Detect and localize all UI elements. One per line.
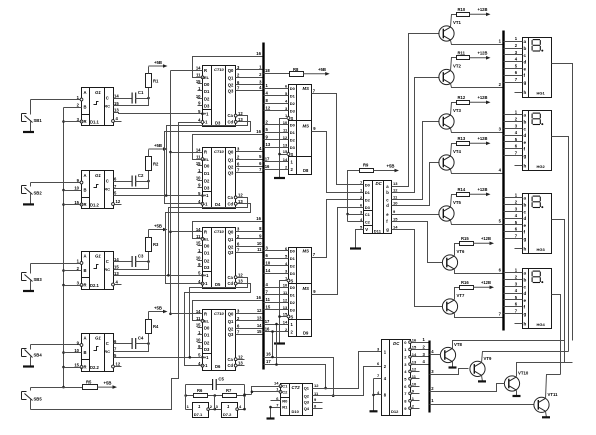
ground xyxy=(23,203,34,205)
svg-text:D1.2: D1.2 xyxy=(90,203,100,208)
wire R input D1.1 xyxy=(64,121,82,123)
supply +12V xyxy=(473,280,494,289)
svg-text:R3: R3 xyxy=(153,242,159,247)
svg-text:+1: +1 xyxy=(204,193,209,198)
svg-text:A: A xyxy=(84,173,87,178)
svg-text:11: 11 xyxy=(266,297,271,302)
wire R input D2.2 xyxy=(64,367,82,369)
svg-text:EL: EL xyxy=(204,75,210,80)
wire D2.1 pin13 to D5 +1 xyxy=(114,275,203,277)
wire VT10 emitter to ground xyxy=(516,391,518,397)
svg-text:D9: D9 xyxy=(303,331,309,336)
svg-text:C2: C2 xyxy=(282,389,288,394)
svg-text:D1: D1 xyxy=(204,171,210,176)
svg-text:D1: D1 xyxy=(290,94,296,99)
svg-text:D0: D0 xyxy=(290,123,296,128)
wire VT8 base xyxy=(430,349,441,355)
resistor R14 xyxy=(451,187,470,207)
svg-text:D12: D12 xyxy=(391,409,399,414)
svg-text:D2.1: D2.1 xyxy=(90,283,100,288)
svg-text:Q2: Q2 xyxy=(228,244,234,249)
wire common cathode HG2 xyxy=(552,137,569,352)
svg-text:Q3: Q3 xyxy=(228,332,234,337)
svg-text:R13: R13 xyxy=(458,136,466,141)
svg-text:VT5: VT5 xyxy=(453,200,461,205)
svg-text:D0: D0 xyxy=(204,244,210,249)
svg-text:+5В: +5В xyxy=(104,381,112,386)
svg-text:RC: RC xyxy=(104,103,110,108)
svg-text:-1: -1 xyxy=(204,363,208,368)
wire carry/borrow stubs D6 xyxy=(238,360,245,366)
wire EL to bus D5 xyxy=(193,216,264,239)
wire common line SB B/R inputs xyxy=(62,108,65,389)
svg-text:10: 10 xyxy=(283,282,288,287)
svg-text:17: 17 xyxy=(265,319,270,324)
svg-text:d: d xyxy=(524,60,527,65)
resistor R12 xyxy=(451,95,470,115)
wire R input D5 xyxy=(171,231,203,233)
svg-text:D3: D3 xyxy=(204,104,210,109)
wire B input D1.2 xyxy=(64,190,82,192)
svg-text:12: 12 xyxy=(412,367,417,372)
wire D11 V to ground xyxy=(356,230,364,249)
supply +12V xyxy=(470,136,491,145)
resistor R8 xyxy=(264,67,304,77)
transistor VT5 xyxy=(439,200,462,221)
wire segment pins HG2 xyxy=(504,110,523,166)
transistor VT3 xyxy=(439,108,462,129)
svg-text:R: R xyxy=(204,311,207,316)
svg-text:Q4: Q4 xyxy=(304,406,310,411)
svg-text:Ca: Ca xyxy=(228,275,234,280)
svg-text:h: h xyxy=(524,90,527,95)
svg-text:D2: D2 xyxy=(290,101,296,106)
svg-text:h: h xyxy=(524,247,527,252)
svg-text:RC: RC xyxy=(104,349,110,354)
svg-text:a: a xyxy=(524,196,527,201)
supply +12V xyxy=(473,236,494,245)
wire Q output stub D1.1 xyxy=(115,121,122,123)
svg-text:15: 15 xyxy=(196,241,201,246)
resistor R16 xyxy=(455,280,474,300)
resistor R6 xyxy=(184,388,222,398)
svg-text:D2: D2 xyxy=(204,97,210,102)
svg-text:+12В: +12В xyxy=(478,136,488,141)
wire EL to bus D6 xyxy=(193,295,264,321)
svg-text:Q3: Q3 xyxy=(228,250,234,255)
svg-text:12: 12 xyxy=(238,272,243,277)
svg-text:+12В: +12В xyxy=(481,236,491,241)
wire D10 R inputs to ground xyxy=(269,401,280,419)
svg-text:-1: -1 xyxy=(204,201,208,206)
wire data input stubs D4 xyxy=(198,166,203,188)
supply +12V xyxy=(470,187,491,196)
wire data input stubs D6 xyxy=(198,328,203,349)
svg-text:HG3: HG3 xyxy=(537,247,546,252)
svg-text:14: 14 xyxy=(393,225,398,230)
svg-text:D2: D2 xyxy=(204,258,210,263)
wire VT11 emitter to ground xyxy=(546,412,547,418)
svg-text:D0: D0 xyxy=(204,82,210,87)
svg-text:13: 13 xyxy=(238,279,243,284)
svg-text:+1: +1 xyxy=(204,273,209,278)
wire segment pins HG3 xyxy=(504,193,523,249)
svg-text:a: a xyxy=(524,39,527,44)
wire borrow D3 to D4 xyxy=(165,122,251,204)
svg-text:17: 17 xyxy=(265,157,270,162)
wire Q output stub D2.1 xyxy=(115,284,122,286)
svg-text:D1: D1 xyxy=(290,130,296,135)
svg-text:CT10: CT10 xyxy=(214,67,225,72)
wire D8 output to D11 D1 xyxy=(312,132,364,193)
svg-text:S: S xyxy=(291,152,294,157)
svg-text:VT2: VT2 xyxy=(453,64,461,69)
svg-text:b: b xyxy=(524,120,527,125)
wire RC D2.1 xyxy=(114,262,149,270)
svg-text:R: R xyxy=(204,229,207,234)
svg-text:R6: R6 xyxy=(197,388,203,393)
svg-text:R1: R1 xyxy=(282,405,288,410)
counter D3 xyxy=(196,65,244,127)
svg-text:Q1: Q1 xyxy=(228,76,234,81)
svg-text:Q1: Q1 xyxy=(304,385,310,390)
svg-text:14: 14 xyxy=(196,66,201,71)
svg-text:+5В: +5В xyxy=(387,164,395,169)
svg-text:VT8: VT8 xyxy=(454,342,462,347)
display HG3 xyxy=(523,194,552,254)
svg-text:13: 13 xyxy=(393,181,398,186)
svg-text:R14: R14 xyxy=(458,187,466,192)
svg-text:D0: D0 xyxy=(290,249,296,254)
svg-text:15: 15 xyxy=(393,217,398,222)
svg-text:D1: D1 xyxy=(290,256,296,261)
wire D12 outputs to digit bus xyxy=(412,337,430,408)
svg-text:R15: R15 xyxy=(461,236,469,241)
svg-text:Q2: Q2 xyxy=(228,165,234,170)
svg-text:12: 12 xyxy=(393,188,398,193)
svg-text:D1: D1 xyxy=(365,190,371,195)
wire VT9 emitter to ground xyxy=(482,376,483,382)
svg-text:12: 12 xyxy=(257,308,262,313)
wire VT5 emitter to bus xyxy=(451,219,504,225)
svg-text:16: 16 xyxy=(266,352,271,357)
wire B input D2.2 xyxy=(64,352,82,354)
svg-text:R: R xyxy=(84,202,87,207)
resistor R4 xyxy=(146,320,160,344)
wire D10 Q3 Q4 stubs xyxy=(313,403,323,409)
capacitor C4 xyxy=(114,336,150,350)
wire R input D4 xyxy=(171,152,203,154)
wire segment f to VT6 xyxy=(392,222,443,263)
pushbutton SB1 xyxy=(22,100,82,133)
supply +5V xyxy=(374,164,400,173)
svg-text:e: e xyxy=(524,298,527,303)
svg-text:a: a xyxy=(524,271,527,276)
resistor R15 xyxy=(455,236,474,256)
wire R input D1.2 xyxy=(64,204,82,206)
svg-text:D2: D2 xyxy=(204,340,210,345)
svg-text:D2: D2 xyxy=(365,198,371,203)
svg-text:Q1: Q1 xyxy=(228,319,234,324)
svg-text:e: e xyxy=(524,66,527,71)
wire D11 C1 input xyxy=(348,214,364,216)
svg-text:D1: D1 xyxy=(204,89,210,94)
svg-text:15: 15 xyxy=(196,323,201,328)
wire VT8 emitter to ground xyxy=(452,362,454,368)
wire VT11 collector xyxy=(546,375,561,399)
supply +5V xyxy=(303,67,330,76)
ground xyxy=(478,380,486,382)
wire carry D5 to D6 xyxy=(189,278,248,359)
svg-text:MS: MS xyxy=(303,249,310,254)
svg-text:R8: R8 xyxy=(293,67,299,72)
svg-text:Cd: Cd xyxy=(228,281,234,286)
svg-text:D2: D2 xyxy=(204,179,210,184)
svg-text:EL: EL xyxy=(204,237,210,242)
transistor VT7 xyxy=(442,293,465,314)
svg-text:D4: D4 xyxy=(215,202,221,207)
wire segment a to VT1 xyxy=(392,34,440,187)
wire EL to bus D4 xyxy=(193,129,264,160)
svg-text:HG2: HG2 xyxy=(537,164,546,169)
wire D9 output to D11 D2 xyxy=(312,200,364,258)
svg-text:12: 12 xyxy=(238,354,243,359)
svg-text:16: 16 xyxy=(256,51,261,56)
svg-text:11: 11 xyxy=(196,73,201,78)
ground xyxy=(23,365,34,367)
transistor VT11 xyxy=(534,392,558,413)
svg-text:G1: G1 xyxy=(95,254,101,259)
supply +12V xyxy=(470,95,491,104)
svg-text:SB5: SB5 xyxy=(34,397,43,402)
svg-text:g: g xyxy=(386,227,389,232)
svg-text:R: R xyxy=(84,283,87,288)
svg-text:+5В: +5В xyxy=(318,67,326,72)
transistor VT4 xyxy=(439,149,462,170)
wire SB5 to D3 -1 input xyxy=(31,123,203,410)
svg-text:11: 11 xyxy=(257,247,262,252)
svg-text:b: b xyxy=(524,46,527,51)
svg-text:VT9: VT9 xyxy=(484,356,492,361)
svg-text:C3: C3 xyxy=(138,254,144,259)
svg-text:g: g xyxy=(524,80,527,85)
svg-text:Q2: Q2 xyxy=(304,393,310,398)
wire VT3 emitter to bus xyxy=(451,127,504,133)
wire oscillator nodes xyxy=(186,385,246,411)
svg-text:Q0: Q0 xyxy=(228,311,234,316)
svg-text:Ca: Ca xyxy=(228,113,234,118)
svg-text:d: d xyxy=(524,133,527,138)
wire borrow D5 to D6 xyxy=(185,284,251,366)
multiplexer D9 xyxy=(283,246,312,337)
svg-text:16: 16 xyxy=(412,337,417,342)
wire bus link 16 to D10 Q2 xyxy=(264,352,335,397)
supply +5V xyxy=(149,306,168,320)
svg-text:D3: D3 xyxy=(290,145,296,150)
svg-text:C2: C2 xyxy=(365,220,371,225)
svg-text:D3: D3 xyxy=(204,185,210,190)
svg-text:S: S xyxy=(291,278,294,283)
wire R input D3 xyxy=(171,70,203,72)
wire D1.1 pin13 to D3 +1 xyxy=(114,113,203,114)
svg-text:VT4: VT4 xyxy=(453,149,461,154)
svg-text:C1: C1 xyxy=(365,212,371,217)
svg-text:D1: D1 xyxy=(204,251,210,256)
wire segment b to VT2 xyxy=(392,78,440,193)
wire D10 Q2 to D12 input 2 xyxy=(313,367,382,396)
svg-text:16: 16 xyxy=(256,295,261,300)
svg-text:16: 16 xyxy=(265,164,270,169)
svg-text:10: 10 xyxy=(196,176,201,181)
wire D9 select links xyxy=(271,323,278,366)
svg-text:D3: D3 xyxy=(290,308,296,313)
svg-text:R7: R7 xyxy=(226,388,232,393)
svg-text:c: c xyxy=(524,126,527,131)
wire borrow D4 to D5 xyxy=(166,204,251,284)
svg-text:HG1: HG1 xyxy=(537,90,546,95)
svg-text:14: 14 xyxy=(196,147,201,152)
wire B input D1.1 xyxy=(64,107,82,109)
transistor VT10 xyxy=(504,371,528,392)
svg-text:CT2: CT2 xyxy=(292,385,301,390)
svg-text:R12: R12 xyxy=(458,95,466,100)
inverter D7.2 xyxy=(216,403,242,418)
wire outputs D9 xyxy=(313,252,317,294)
svg-text:D3: D3 xyxy=(365,205,371,210)
svg-text:MS: MS xyxy=(303,124,310,129)
decoder D12 xyxy=(377,337,417,415)
svg-text:Cd: Cd xyxy=(228,363,234,368)
wire VT9 collector xyxy=(482,352,569,363)
svg-text:D0: D0 xyxy=(290,285,296,290)
supply +5V xyxy=(97,381,117,389)
wire Q outputs D4 to bus xyxy=(236,146,264,172)
svg-text:Q0: Q0 xyxy=(228,150,234,155)
svg-text:15: 15 xyxy=(283,312,288,317)
svg-text:VT7: VT7 xyxy=(457,293,465,298)
wire segment g to VT7 xyxy=(392,230,443,307)
svg-text:VT11: VT11 xyxy=(548,392,559,397)
svg-text:Cd: Cd xyxy=(228,120,234,125)
supply +5V xyxy=(149,224,168,238)
svg-text:D0: D0 xyxy=(365,183,371,188)
svg-text:Ca: Ca xyxy=(228,195,234,200)
svg-text:h: h xyxy=(524,164,527,169)
svg-text:D8: D8 xyxy=(303,168,309,173)
ground xyxy=(274,177,285,179)
svg-text:Q0: Q0 xyxy=(228,229,234,234)
svg-text:11: 11 xyxy=(196,154,201,159)
svg-text:C4: C4 xyxy=(138,336,144,341)
svg-text:SB2: SB2 xyxy=(34,190,43,195)
svg-text:15: 15 xyxy=(74,363,79,368)
svg-text:C: C xyxy=(106,341,109,346)
svg-text:D3: D3 xyxy=(204,265,210,270)
wire B input D2.1 xyxy=(64,270,82,272)
wire carry D4 to D5 xyxy=(167,198,247,277)
svg-text:13: 13 xyxy=(257,316,262,321)
wire oscillator to D10 clock xyxy=(243,387,280,397)
wire bus link 17 to D10 Q1 xyxy=(264,359,327,389)
svg-text:15: 15 xyxy=(412,345,417,350)
capacitor C5 xyxy=(186,377,245,391)
svg-text:D2: D2 xyxy=(290,264,296,269)
svg-text:C: C xyxy=(106,96,109,101)
svg-text:+5В: +5В xyxy=(154,143,162,148)
pushbutton SB3 xyxy=(22,264,82,292)
supply +12V xyxy=(470,7,491,16)
svg-text:14: 14 xyxy=(283,319,288,324)
svg-text:R: R xyxy=(204,68,207,73)
svg-text:RC: RC xyxy=(104,267,110,272)
svg-text:e: e xyxy=(524,140,527,145)
wire segment c to VT3 xyxy=(392,122,440,200)
ground xyxy=(370,410,378,412)
monostable D2.2 xyxy=(74,334,121,372)
svg-text:+5В: +5В xyxy=(154,224,162,229)
svg-text:13: 13 xyxy=(266,142,271,147)
wire EL to bus D3 xyxy=(193,51,264,78)
svg-text:c: c xyxy=(524,209,527,214)
svg-text:D0: D0 xyxy=(290,86,296,91)
svg-text:12: 12 xyxy=(314,383,319,388)
svg-text:C: C xyxy=(106,179,109,184)
svg-text:VT1: VT1 xyxy=(453,20,461,25)
resistor R9 xyxy=(346,163,373,222)
svg-text:12: 12 xyxy=(266,106,271,111)
wire R input D2.1 xyxy=(64,285,82,287)
wire Q output stub D1.2 xyxy=(115,204,122,206)
svg-text:Cd: Cd xyxy=(228,201,234,206)
ground xyxy=(274,342,285,344)
svg-text:R4: R4 xyxy=(153,324,159,329)
svg-text:13: 13 xyxy=(283,142,288,147)
svg-text:R10: R10 xyxy=(458,7,466,12)
wire RC D1.1 xyxy=(114,99,149,106)
ground xyxy=(267,417,275,419)
transistor VT2 xyxy=(439,64,462,85)
wire VT1 emitter to bus xyxy=(451,39,504,45)
wire VT11 base xyxy=(430,398,534,404)
svg-text:S: S xyxy=(291,116,294,121)
svg-text:14: 14 xyxy=(266,268,271,273)
svg-text:+5В: +5В xyxy=(154,306,162,311)
resistor R2 xyxy=(146,157,160,182)
svg-text:CT10: CT10 xyxy=(214,149,225,154)
svg-text:R: R xyxy=(84,365,87,370)
resistor R13 xyxy=(451,136,470,156)
svg-text:D0: D0 xyxy=(204,164,210,169)
wire segment pins HG4 xyxy=(504,268,523,324)
wire D10 Q1 to D12 input 1 xyxy=(313,352,382,389)
svg-text:B: B xyxy=(84,350,87,355)
wire R input D6 xyxy=(171,313,203,315)
svg-text:13: 13 xyxy=(412,359,417,364)
svg-text:R: R xyxy=(84,119,87,124)
svg-text:b: b xyxy=(524,203,527,208)
svg-text:D0: D0 xyxy=(204,326,210,331)
bus group line 2 xyxy=(502,31,504,331)
svg-text:10: 10 xyxy=(412,381,417,386)
svg-text:D11: D11 xyxy=(374,229,382,234)
svg-text:D2: D2 xyxy=(290,138,296,143)
svg-text:b: b xyxy=(386,190,389,195)
svg-text:15: 15 xyxy=(257,329,262,334)
svg-text:R1: R1 xyxy=(153,79,159,84)
svg-text:13: 13 xyxy=(238,361,243,366)
svg-text:Q1: Q1 xyxy=(228,157,234,162)
svg-text:d: d xyxy=(386,203,389,208)
